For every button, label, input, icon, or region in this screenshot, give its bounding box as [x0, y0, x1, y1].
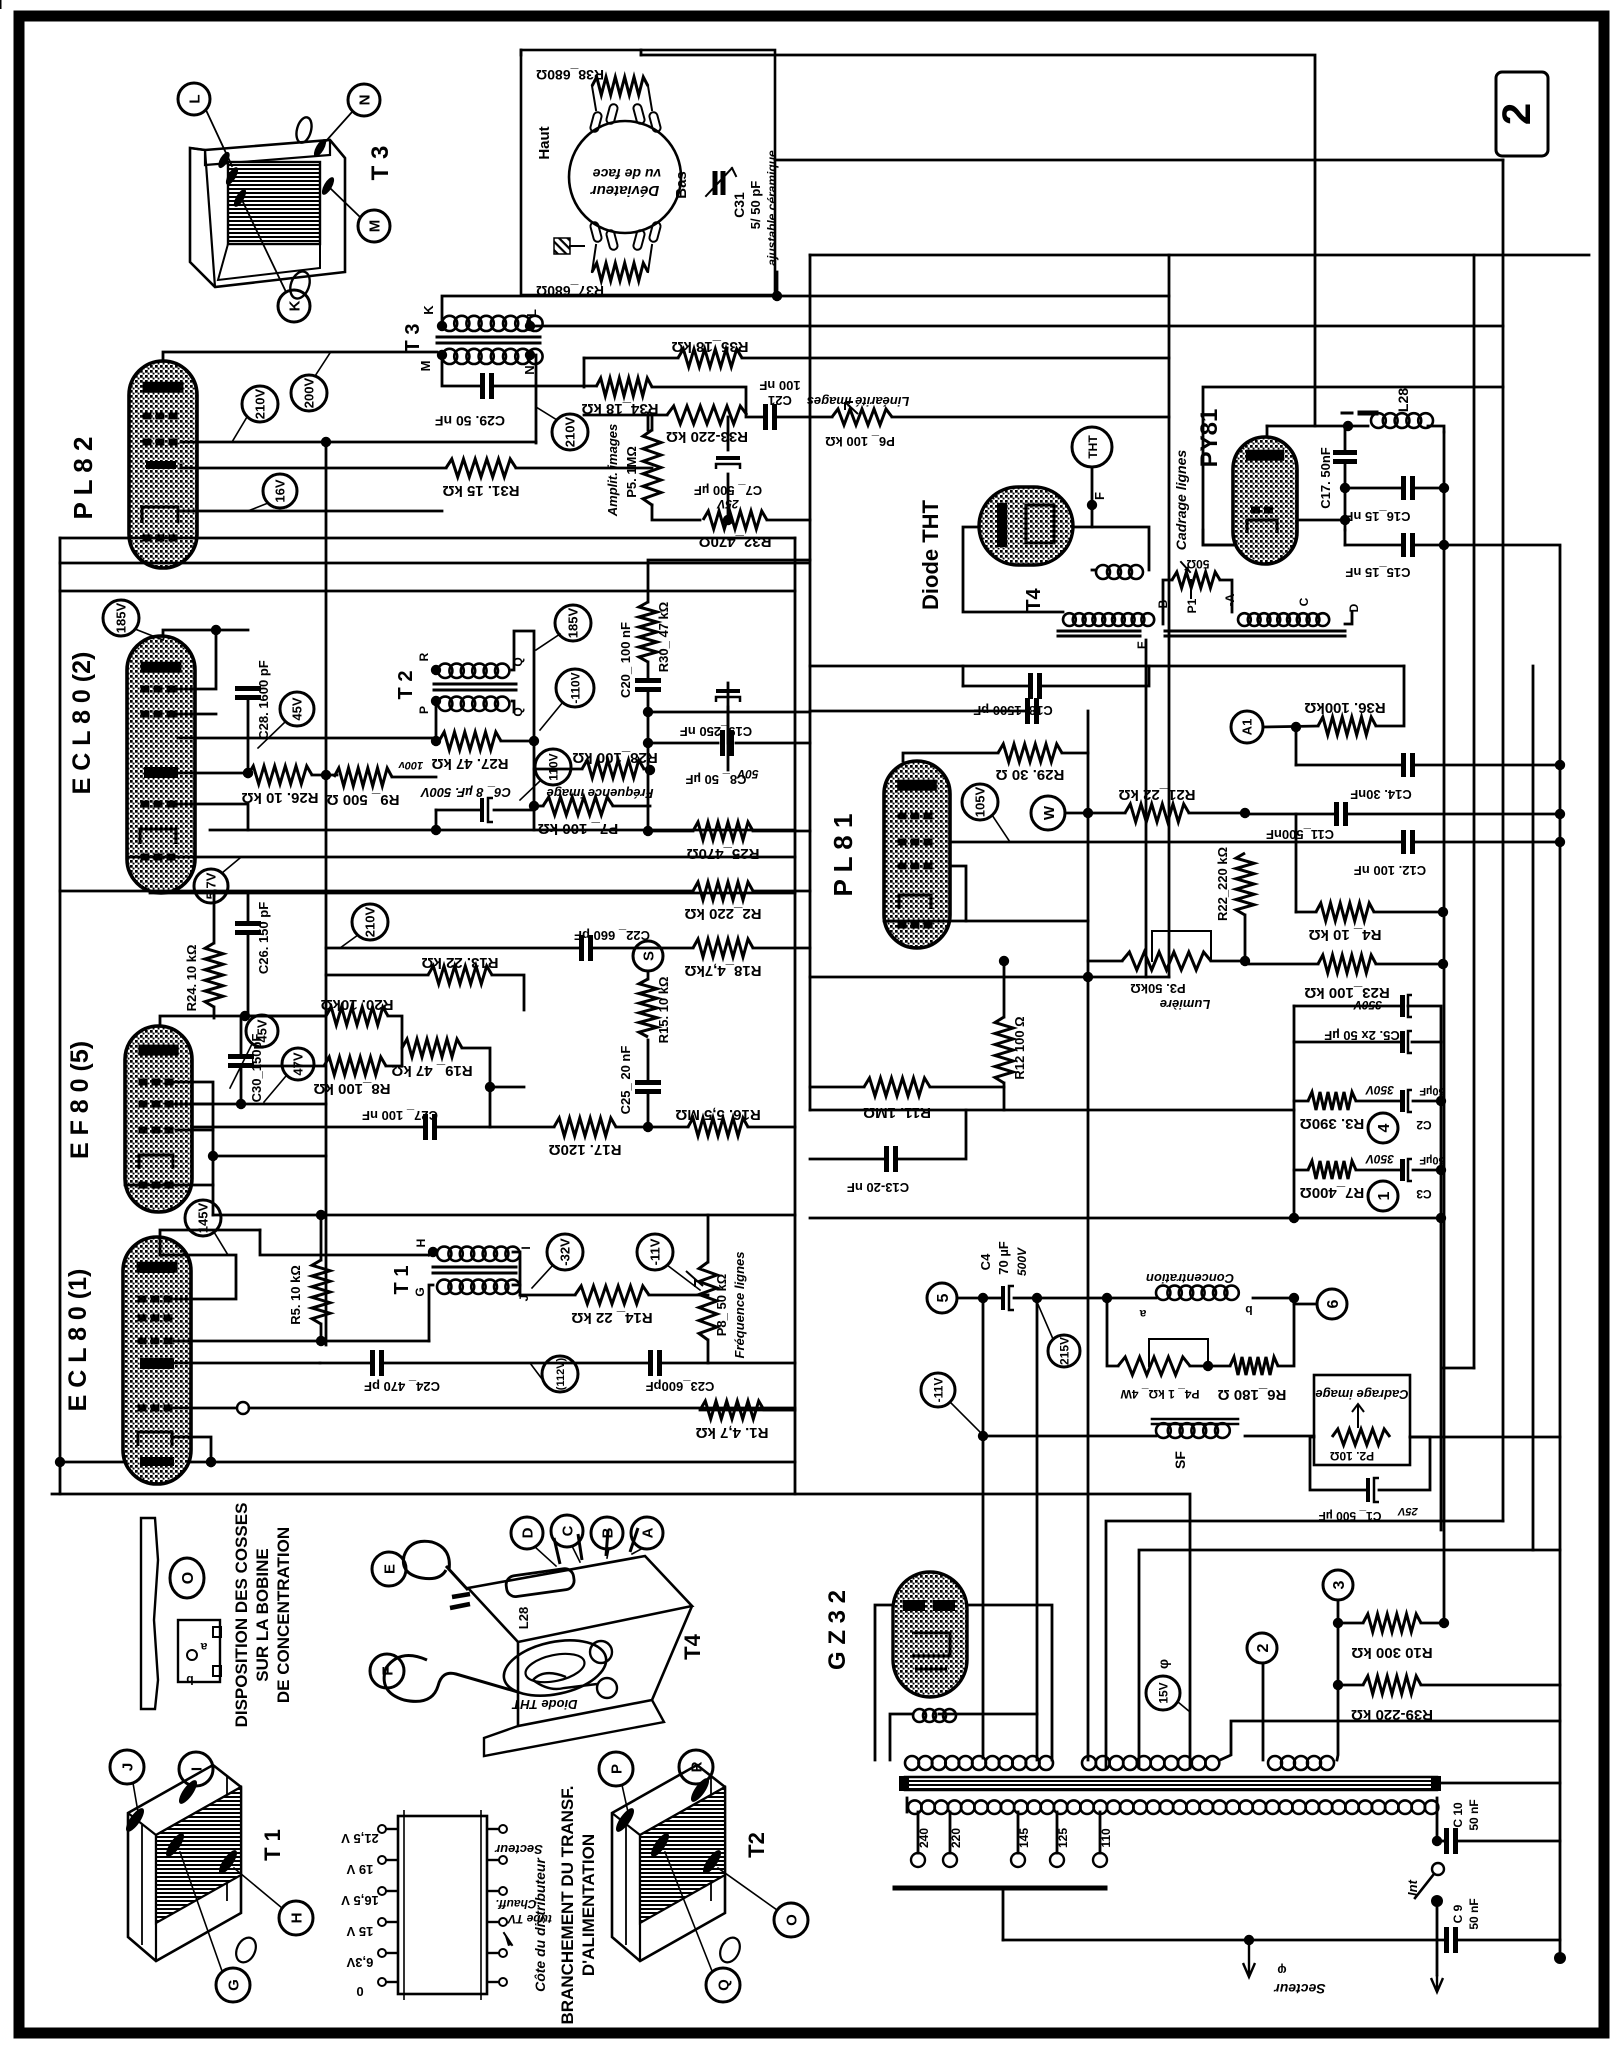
- wire A1 to R36: [1263, 726, 1318, 727]
- svg-text:ajustable céramique: ajustable céramique: [765, 150, 779, 266]
- wire diode heater link: [1092, 527, 1149, 570]
- label C29: [435, 413, 505, 429]
- junction P4 R6: [1203, 1361, 1213, 1371]
- wire switch down: [1436, 1901, 1439, 1975]
- wire R8 left: [248, 1065, 324, 1068]
- svg-text:R36. 100kΩ: R36. 100kΩ: [1304, 699, 1385, 716]
- circle 112V: [530, 1356, 578, 1392]
- capacitor C20 100nF: [635, 681, 661, 690]
- wire B up: [1163, 580, 1172, 624]
- circle 15V: [1146, 1676, 1190, 1712]
- wire R11 right: [930, 1086, 1004, 1089]
- svg-text:C31: C31: [731, 192, 747, 218]
- junction R27 left: [431, 736, 441, 746]
- svg-text:-11V: -11V: [648, 1238, 663, 1265]
- transformer T3 3D drawing: [190, 116, 345, 302]
- svg-text:25V: 25V: [1397, 1505, 1419, 1517]
- svg-text:I: I: [188, 1767, 205, 1771]
- T3 secondary coil: [442, 349, 543, 364]
- svg-text:P: P: [608, 1764, 625, 1774]
- wire P3 right: [1211, 960, 1245, 963]
- transformer T1 3D drawing: [128, 1765, 285, 1966]
- bus x1474: [1473, 255, 1476, 1368]
- terminal 145: [1011, 1828, 1031, 1867]
- resistor R6 180: [1218, 1357, 1287, 1403]
- label secteur board: [494, 1842, 543, 1857]
- junction C17 520: [1340, 515, 1350, 525]
- label C20: [618, 622, 633, 698]
- wire R7 left: [1294, 1169, 1308, 1172]
- resistor R22 220k: [1236, 853, 1254, 915]
- wire R14 right: [649, 1294, 708, 1297]
- wire R17 right: [616, 1126, 648, 1129]
- circle E: [372, 1552, 406, 1586]
- label C27: [362, 1108, 438, 1123]
- wire R20 left: [248, 1015, 326, 1018]
- capacitor C23 600pF: [651, 1350, 660, 1376]
- svg-text:φ: φ: [1277, 1963, 1286, 1978]
- label C17: [1318, 447, 1333, 508]
- junction R26 left: [243, 768, 253, 778]
- EF80 cathode wire: [125, 1184, 213, 1187]
- svg-text:21,5 V: 21,5 V: [341, 1831, 379, 1846]
- label T4: [1023, 587, 1045, 611]
- label J: [517, 1295, 531, 1302]
- wire yoke right to C31 net: [775, 159, 1503, 162]
- chassis bar: [895, 1886, 1105, 1891]
- circle 4: [1368, 1113, 1398, 1143]
- resistor R33 220k: [666, 406, 748, 445]
- terminal 220: [943, 1828, 963, 1867]
- svg-text:R15. 10 kΩ: R15. 10 kΩ: [656, 977, 671, 1044]
- bus x1315 top: [1314, 255, 1317, 426]
- wire R35 right: [742, 357, 810, 360]
- svg-text:C13-20 nF: C13-20 nF: [847, 1180, 909, 1195]
- junction 213 1156: [208, 1151, 218, 1161]
- junction 831: [643, 826, 653, 836]
- svg-text:O: O: [783, 1914, 800, 1926]
- svg-text:B: B: [599, 1527, 616, 1538]
- wire C26 down: [247, 933, 250, 1016]
- svg-text:C17. 50nF: C17. 50nF: [1318, 447, 1333, 508]
- svg-text:vu de face: vu de face: [593, 166, 662, 182]
- label R22: [1215, 847, 1230, 921]
- wire C30 down: [240, 1066, 243, 1104]
- wire R26-R9: [312, 774, 337, 777]
- left block bottom edge 2: [52, 1494, 1190, 1768]
- wire R5 top link: [320, 1215, 323, 1260]
- label Q2: [511, 707, 525, 716]
- wire R35 drop: [583, 358, 586, 387]
- wire C12 left: [1296, 841, 1403, 844]
- circle J: [110, 1750, 144, 1812]
- svg-text:350V: 350V: [1365, 1083, 1394, 1097]
- T3 primary coil: [442, 316, 543, 331]
- svg-text:T4: T4: [680, 1633, 705, 1659]
- primary left lead: [906, 1798, 909, 1812]
- terminal K callout: [242, 200, 310, 322]
- T1 secondary coil: [437, 1280, 520, 1294]
- wire 1363 junction: [708, 1362, 795, 1365]
- coil diode heater: [1096, 565, 1143, 579]
- wire C7 up: [727, 417, 730, 450]
- svg-text:R4_ 10 kΩ: R4_ 10 kΩ: [1309, 926, 1382, 943]
- svg-text:C4: C4: [978, 1253, 993, 1270]
- voltage circle 47V: [264, 1048, 314, 1102]
- wire R13 left: [326, 974, 428, 977]
- wire C7 down: [727, 474, 730, 520]
- left block bottom edge: [60, 1461, 795, 1464]
- circle A: [631, 1517, 663, 1554]
- label C9: [1451, 1898, 1481, 1929]
- label F: [1092, 492, 1107, 500]
- T2 right link: [512, 631, 534, 741]
- svg-text:R9_ 500 Ω: R9_ 500 Ω: [327, 791, 400, 808]
- PL82 anode wire: [163, 352, 437, 361]
- circle -32V: [532, 1234, 583, 1288]
- wire T4 right end: [1345, 612, 1352, 624]
- PL81 grid dashes 2: [898, 839, 933, 846]
- secteur arrow left: [1243, 1940, 1255, 1977]
- wire C17 down: [1344, 462, 1347, 530]
- wire R11 left: [810, 1086, 864, 1089]
- junction R4 1443: [1438, 907, 1448, 917]
- wire C15 right: [1413, 544, 1560, 547]
- svg-text:C 10: C 10: [1451, 1802, 1465, 1828]
- wire C19 row: [648, 742, 718, 745]
- resistor R23 100k: [1304, 955, 1389, 1001]
- circle O cosses: [170, 1558, 204, 1598]
- capacitor C1 500uF: [1366, 1478, 1379, 1502]
- svg-text:R19_ 47 kΩ: R19_ 47 kΩ: [391, 1062, 472, 1079]
- label Secteur: [1273, 1963, 1326, 1997]
- wire P8 bot: [707, 1340, 710, 1363]
- junction 1294 1218: [1289, 1213, 1299, 1223]
- ECL80(2) grid dashes 1: [141, 686, 176, 693]
- svg-text:50V: 50V: [736, 767, 758, 781]
- wire C24 left: [320, 1362, 372, 1365]
- label C23: [646, 1379, 715, 1394]
- bus x1560: [1559, 547, 1562, 1958]
- wire R1 left: [700, 1409, 795, 1412]
- svg-text:500V: 500V: [1015, 1247, 1029, 1276]
- wire W right: [1065, 812, 1088, 815]
- capacitor C31 ajustable: [706, 168, 736, 196]
- circle P: [599, 1752, 633, 1812]
- wire R3 left: [1294, 1100, 1308, 1103]
- circle O t2: [718, 1868, 808, 1937]
- transformer T1 symbol core: [433, 1267, 516, 1273]
- label C t4: [1297, 597, 1311, 606]
- capacitor C22 660pF: [582, 935, 591, 961]
- resistor R31 15k: [442, 459, 519, 499]
- resistor R19 47k: [391, 1039, 472, 1079]
- resistor R7 400: [1300, 1161, 1365, 1201]
- PL82 cathode dashes: [143, 535, 178, 542]
- wire R12 bottom: [1003, 1083, 1006, 1110]
- T1 lug H: [216, 1848, 240, 1877]
- wire 1215 row: [213, 1214, 795, 1217]
- svg-text:H: H: [414, 1239, 428, 1248]
- voltage circle 5,7V: [194, 858, 240, 903]
- wire T1 J: [513, 1285, 520, 1295]
- resistor P7 100k: [538, 797, 618, 837]
- ECL80(1) wire 1255: [159, 1237, 162, 1255]
- tube PL81 envelope: [884, 761, 950, 948]
- svg-text:125: 125: [1056, 1828, 1070, 1848]
- voltage circle 210V anode: [536, 407, 588, 450]
- svg-text:P1: P1: [1185, 598, 1199, 613]
- PL82 pin wire 16V: [181, 510, 442, 513]
- circle 1: [1368, 1181, 1398, 1211]
- svg-text:350V: 350V: [1365, 1152, 1394, 1166]
- wire C28 down: [247, 698, 250, 773]
- terminal pin right 6,3V: [487, 1949, 507, 1957]
- svg-text:R2_220 kΩ: R2_220 kΩ: [684, 905, 761, 922]
- svg-text:R30_ 47 kΩ: R30_ 47 kΩ: [656, 602, 671, 672]
- wire R39 left: [1338, 1684, 1363, 1687]
- svg-text:P6_ 100 kΩ: P6_ 100 kΩ: [825, 434, 895, 449]
- label branchement: [558, 1786, 598, 2025]
- capacitor C28 1600pF: [235, 689, 261, 698]
- ECL80(2) heater: [140, 829, 176, 844]
- svg-text:E: E: [1135, 641, 1149, 649]
- svg-text:THT: THT: [1086, 435, 1100, 459]
- svg-text:0: 0: [356, 1984, 363, 1999]
- long wire y417 right: [892, 416, 1169, 419]
- svg-text:2: 2: [1255, 1643, 1272, 1652]
- wire T1 I right: [513, 1252, 520, 1285]
- EF80 pin vert: [212, 1104, 215, 1185]
- wire R18 left: [594, 947, 693, 950]
- svg-text:C16_15 nF: C16_15 nF: [1345, 509, 1410, 524]
- svg-text:a: a: [1139, 1307, 1146, 1321]
- label C30: [249, 1034, 264, 1103]
- wire C8 top: [727, 683, 730, 743]
- ECL80(1) heater link: [172, 1437, 211, 1462]
- svg-text:R21_22 kΩ: R21_22 kΩ: [1118, 786, 1195, 803]
- label D: [1347, 603, 1361, 612]
- wire C15 left: [1345, 544, 1403, 547]
- svg-text:210V: 210V: [253, 388, 268, 419]
- wire C26 top: [247, 893, 250, 923]
- wire C9 right: [1456, 1939, 1560, 1942]
- junction C12 1560: [1555, 837, 1565, 847]
- label M: [418, 361, 433, 372]
- phi mark: [1155, 1659, 1171, 1669]
- wire R19 right: [462, 1048, 490, 1087]
- wire R32 right: [767, 519, 810, 522]
- PL82 grid dashes 2: [143, 439, 178, 446]
- wire T1 H: [429, 1252, 433, 1255]
- svg-text:50µF: 50µF: [1419, 1154, 1445, 1166]
- ECL80(1) anode wire: [160, 1230, 260, 1237]
- capacitor C27 100nF: [426, 1114, 435, 1140]
- wire C23 right: [660, 1362, 708, 1365]
- ECL80(1) grid dashes 1: [138, 1296, 173, 1303]
- capacitor C5 2x50uF: [1324, 995, 1412, 1053]
- svg-text:-11V: -11V: [931, 1378, 945, 1403]
- junction R12 top: [999, 956, 1009, 966]
- svg-text:Fréquence image: Fréquence image: [547, 786, 654, 801]
- ECL80(1) g wire: [174, 1340, 429, 1343]
- svg-text:15V: 15V: [1156, 1682, 1170, 1703]
- wire 1296 v: [1295, 814, 1298, 912]
- resistor R15 10k: [639, 979, 657, 1037]
- T2 lug R: [688, 1776, 712, 1805]
- junction T1 H: [428, 1247, 438, 1257]
- capacitor C4 70uF: [1001, 1286, 1014, 1310]
- resistor R25 470: [687, 822, 760, 862]
- wire P7 left: [534, 805, 543, 808]
- ECL80(2) pin1 wire: [176, 630, 216, 689]
- wire R2 left: [60, 890, 693, 893]
- svg-text:Int: Int: [1405, 1879, 1420, 1896]
- circle C: [551, 1515, 583, 1562]
- PL81 cathode dashes: [898, 922, 933, 929]
- transformer T3 symbol core: [437, 337, 540, 343]
- terminal 125: [1050, 1828, 1070, 1867]
- wire P7-C6 link: [533, 769, 536, 830]
- capacitor C8 50uF: [716, 689, 740, 702]
- circle A1: [1231, 711, 1263, 743]
- tube ECL80(2) envelope: [127, 636, 195, 893]
- svg-text:R6_180 Ω: R6_180 Ω: [1218, 1386, 1287, 1403]
- svg-text:215V: 215V: [1057, 1337, 1071, 1365]
- label PY81: [1196, 409, 1223, 468]
- potentiometer P6 100k linearite: [807, 394, 910, 449]
- ECL80(1) heater: [138, 1432, 172, 1446]
- wire S down: [647, 971, 650, 979]
- svg-text:L28: L28: [516, 1607, 531, 1629]
- svg-text:R29. 30 Ω: R29. 30 Ω: [996, 766, 1065, 783]
- deviateur face circle: [569, 121, 681, 233]
- elbow 5: [1087, 977, 1090, 1760]
- svg-text:105V: 105V: [973, 786, 988, 817]
- svg-text:E F 8 0 (5): E F 8 0 (5): [66, 1041, 94, 1159]
- wire R8 right: [386, 1065, 402, 1068]
- wire THT stem: [1091, 467, 1094, 505]
- wire P4 left: [1107, 1298, 1118, 1366]
- wire R10 left: [1338, 1622, 1363, 1625]
- junction C2 bus: [1436, 1096, 1446, 1106]
- T1 primary coil: [437, 1247, 520, 1261]
- wire 490 v: [489, 1087, 492, 1127]
- wire R28 left: [534, 741, 582, 769]
- svg-text:185V: 185V: [114, 602, 129, 633]
- ECL80(1) grid dashes 2: [138, 1315, 173, 1322]
- svg-text:110V: 110V: [546, 753, 560, 780]
- tap 145: [1017, 1812, 1020, 1853]
- wire C5b right: [1412, 1041, 1441, 1044]
- label R5: [288, 1265, 303, 1325]
- voltage circle 45V: [258, 692, 314, 748]
- capacitor C29 50nF: [483, 373, 492, 399]
- junction 1107 1298: [1102, 1293, 1112, 1303]
- junction R5 bottom: [316, 1336, 326, 1346]
- svg-text:R33-220 kΩ: R33-220 kΩ: [666, 428, 748, 445]
- wire diode left: [963, 527, 1063, 612]
- coil SF: [1152, 1419, 1238, 1438]
- svg-text:Cadrage lignes: Cadrage lignes: [1173, 450, 1189, 551]
- wire C18 left: [963, 685, 1030, 688]
- terminal pin right 15 V: [487, 1918, 507, 1926]
- wire R17 left: [490, 1126, 554, 1129]
- label N: [522, 365, 537, 374]
- label R24: [184, 945, 199, 1012]
- svg-text:L: L: [186, 94, 203, 103]
- EF80 grid dashes 1: [139, 1079, 174, 1086]
- wire L28 to bus: [1428, 426, 1444, 432]
- svg-text:C: C: [559, 1525, 576, 1536]
- svg-text:K: K: [421, 305, 436, 315]
- label C4: [978, 1241, 1029, 1276]
- circle W: [1031, 796, 1065, 830]
- svg-text:R35_18 kΩ: R35_18 kΩ: [671, 338, 748, 355]
- svg-text:C2: C2: [1416, 1118, 1432, 1132]
- svg-text:D'ALIMENTATION: D'ALIMENTATION: [579, 1834, 598, 1976]
- T2 lug O: [700, 1848, 724, 1877]
- wire C25 down: [647, 1092, 650, 1127]
- junction 743: [643, 738, 653, 748]
- wire C11 right: [1346, 813, 1560, 816]
- transformer primary winding: [908, 1800, 1438, 1814]
- wire R2 right: [753, 890, 810, 893]
- wire R29 right: [1062, 752, 1088, 755]
- wire b right: [1253, 1297, 1294, 1300]
- label T1 symbol: [391, 1266, 413, 1295]
- wire C6 left: [436, 809, 479, 812]
- label C13: [847, 1180, 909, 1195]
- svg-text:C26. 150 pF: C26. 150 pF: [256, 902, 271, 974]
- voltage circle 185V: [103, 600, 163, 640]
- svg-text:M: M: [366, 220, 383, 233]
- svg-text:DISPOSITION DES COSSES: DISPOSITION DES COSSES: [232, 1503, 251, 1728]
- resistor R9 500: [327, 768, 400, 808]
- svg-text:16,5 V: 16,5 V: [341, 1893, 379, 1908]
- wire C16 right: [1413, 487, 1444, 490]
- row3 right link: [1337, 1721, 1338, 1760]
- label C26: [256, 902, 271, 974]
- label C11: [1266, 827, 1334, 842]
- wire diode to F: [1073, 505, 1092, 527]
- capacitor C11 500nF: [1337, 802, 1346, 826]
- label PL82: [68, 437, 98, 520]
- tap right sec: [1262, 1664, 1265, 1760]
- junction R23 1443: [1438, 959, 1448, 969]
- svg-text:R12 100 Ω: R12 100 Ω: [1012, 1016, 1027, 1079]
- deviateur wiring box: [521, 50, 775, 295]
- wire C4 right: [1014, 1297, 1156, 1300]
- svg-text:R7_400Ω: R7_400Ω: [1300, 1184, 1365, 1201]
- wire C11 left: [1245, 813, 1336, 816]
- junction 1088 977: [1083, 972, 1093, 982]
- T1 lug G: [163, 1831, 187, 1860]
- transformer secondary heater winding 2: [1268, 1756, 1334, 1770]
- svg-text:T 3: T 3: [402, 324, 424, 353]
- junction 1441 1218: [1436, 1213, 1446, 1223]
- L28 pin: [1342, 412, 1376, 415]
- svg-text:Déviateur: Déviateur: [590, 182, 660, 199]
- junction R28 650: [645, 765, 655, 775]
- svg-text:5,7V: 5,7V: [204, 872, 219, 899]
- svg-text:C30_150pF: C30_150pF: [249, 1034, 264, 1103]
- junction R27 right: [529, 736, 539, 746]
- svg-text:C3: C3: [1416, 1187, 1432, 1201]
- junction F: [1087, 500, 1097, 510]
- resistor R1 4.7k: [696, 1401, 769, 1441]
- wire C6 drop: [435, 810, 438, 830]
